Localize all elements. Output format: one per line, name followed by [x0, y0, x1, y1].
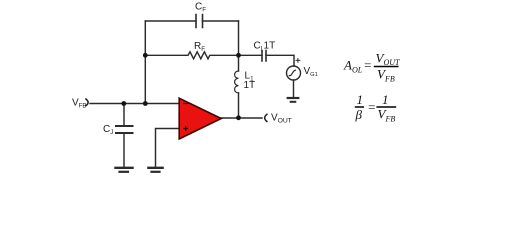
svg-text:AOL: AOL	[343, 58, 363, 75]
svg-text:1: 1	[382, 92, 389, 107]
svg-text:VOUT: VOUT	[271, 113, 292, 125]
svg-text:1T: 1T	[244, 80, 256, 91]
svg-text:=: =	[363, 58, 372, 73]
svg-text:VFB: VFB	[377, 66, 395, 83]
svg-text:VOUT: VOUT	[376, 51, 401, 68]
svg-text:=: =	[367, 100, 376, 115]
svg-text:VG1: VG1	[304, 66, 318, 78]
svg-text:CF: CF	[195, 2, 206, 14]
svg-text:CI1T: CI1T	[254, 41, 276, 53]
svg-text:CJ: CJ	[103, 124, 113, 136]
svg-text:VFB: VFB	[72, 98, 86, 110]
svg-text:β: β	[355, 107, 363, 122]
svg-text:1: 1	[357, 92, 364, 107]
svg-text:VFB: VFB	[378, 106, 396, 123]
svg-text:RF: RF	[194, 41, 205, 53]
